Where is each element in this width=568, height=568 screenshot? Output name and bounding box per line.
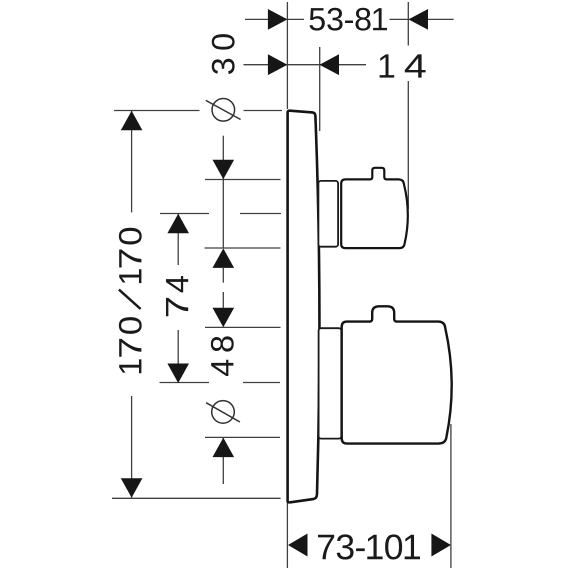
dim line 48 middle dash b [222, 292, 224, 308]
dim line 74 upper segment [177, 214, 179, 265]
extension line plate front (x=319) [319, 47, 321, 131]
extension line top handle centerline left segment (y=213.5) [160, 213, 209, 215]
label 73-101 [318, 534, 420, 559]
label 14 [380, 54, 426, 77]
top handle base block [318, 181, 338, 247]
diameter symbol top circle [212, 99, 235, 122]
label 170/170 (rotated) [119, 228, 142, 374]
arrow 48 top (points up) [213, 248, 235, 268]
label 53-81 [310, 8, 388, 31]
dim line 74 lower segment [177, 330, 179, 383]
arrow 53-81 right (points left) [409, 9, 429, 30]
extension line top handle upper edge (y=179.5) [205, 179, 281, 181]
arrow 74 top (points up) [167, 214, 189, 234]
extension line bottom handle centerline right segment (y=382.5) [243, 382, 280, 384]
dim line 53-81 left tail [245, 18, 304, 20]
dim line 30 row [244, 64, 367, 66]
arrow 30 left (points right) [268, 54, 288, 75]
diameter symbol top slash [206, 100, 241, 119]
arrow 53-81 left (points right) [268, 9, 288, 30]
leader line diameter top to handle [222, 136, 224, 179]
diameter symbol bottom slash [206, 403, 240, 422]
label 74 (rotated) [166, 276, 188, 316]
arrow 73-101 right (points right) [431, 534, 451, 557]
label 30 (rotated) [212, 34, 235, 74]
top handle body with index tab [341, 168, 408, 248]
arrow 73-101 left (points left) [288, 534, 308, 557]
extension line handle tip upper segment (x=408) [407, 2, 409, 46]
extension line bottom handle lower edge (y=437.4) [205, 436, 280, 438]
extension line top handle lower edge (y=248) [205, 247, 281, 249]
dim line 170/170 lower segment [131, 396, 133, 498]
escutcheon plate (side view) [288, 111, 320, 503]
arrow 48 bottom (points down) [213, 308, 235, 328]
arrow 170/170 top (points up) [121, 111, 143, 131]
extension line bottom handle upper edge (y=327.4) [205, 326, 281, 328]
dim line 170/170 upper segment [131, 111, 133, 212]
extension line bottom handle centerline left segment (y=382.5) [160, 382, 210, 384]
arrow diameter leader top (points down) [213, 160, 235, 180]
extension line plate top right segment (y=110.5) [244, 110, 283, 112]
extension line wall plane bottom (x=287) [286, 503, 288, 568]
extension line top handle centerline right segment (y=213.5) [240, 213, 281, 215]
extension line plate bottom (y=498) [112, 497, 281, 499]
label 48 (rotated) [211, 336, 234, 376]
arrow diameter leader bottom (points up) [213, 438, 235, 458]
arrow 30 right (points left) [320, 54, 340, 75]
arrow 170/170 bottom (points down) [121, 478, 143, 498]
diameter symbol bottom circle [212, 401, 235, 424]
dim line 53-81 right tail [390, 18, 454, 20]
bottom handle body with index tab [342, 306, 452, 443]
extension line bottom handle tip (x=451) [450, 424, 452, 568]
leader line diameter bottom tail [222, 438, 224, 484]
dim line 48 upper dash [222, 180, 224, 249]
bottom handle base block [319, 328, 342, 438]
extension line plate top left segment (y=110.5) [114, 110, 200, 112]
extension line wall plane top (x=287) [286, 2, 288, 109]
dim line 48 middle dash a [222, 268, 224, 283]
arrow 74 bottom (points down) [167, 364, 189, 384]
extension line handle tip lower segment (x=408) [407, 81, 409, 209]
